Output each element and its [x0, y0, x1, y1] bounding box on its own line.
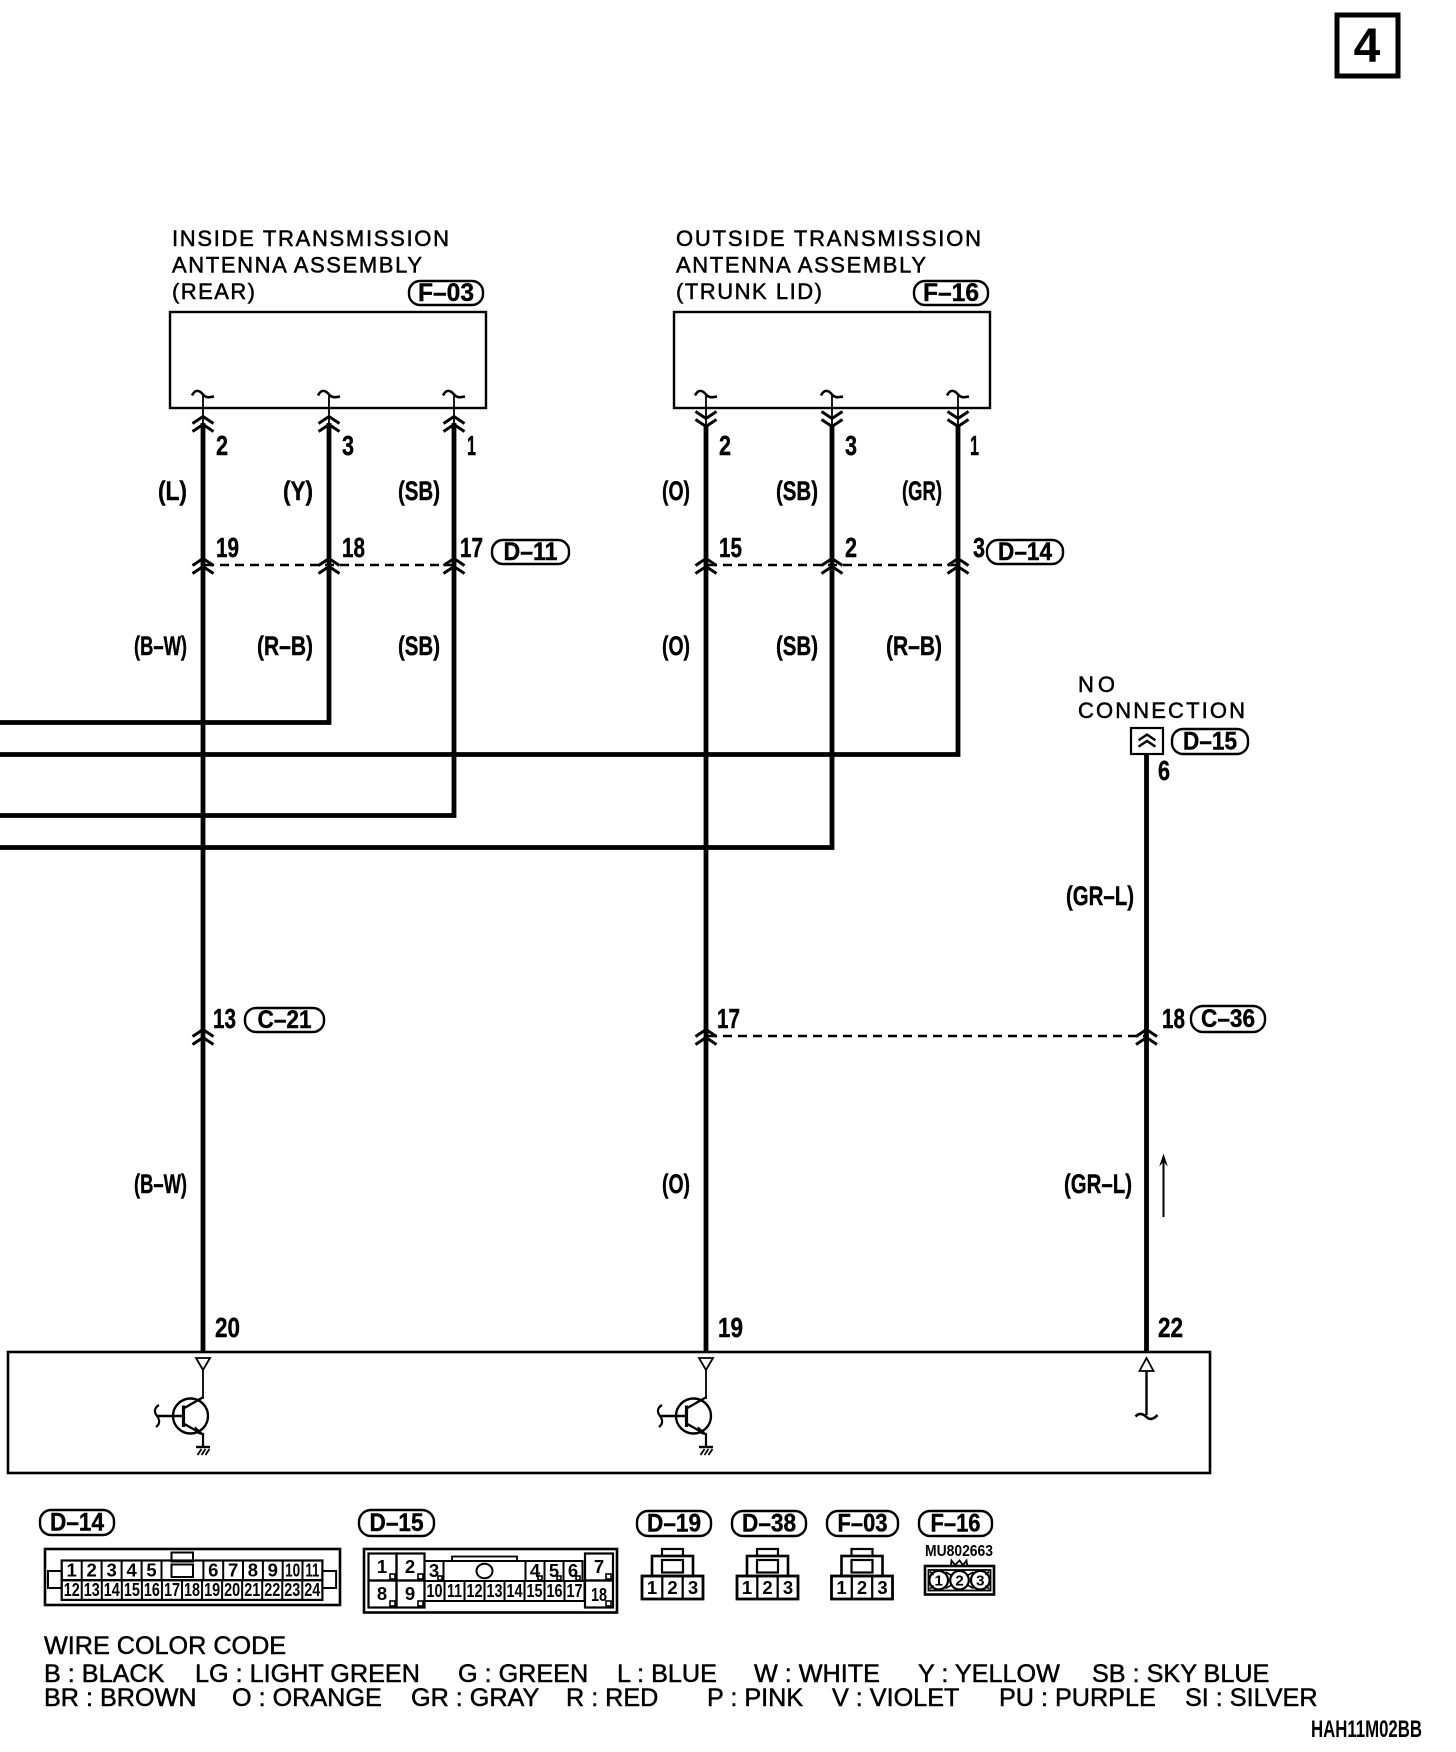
component box F-03 antenna assembly — [170, 312, 486, 408]
svg-text:D–14: D–14 — [50, 1509, 104, 1537]
svg-text:ANTENNA ASSEMBLY: ANTENNA ASSEMBLY — [172, 253, 422, 278]
svg-text:23: 23 — [284, 1579, 300, 1600]
svg-text:D–15: D–15 — [370, 1509, 424, 1537]
svg-text:(R–B): (R–B) — [257, 631, 313, 661]
wire continues wave — [1136, 1414, 1158, 1419]
svg-text:F–16: F–16 — [931, 1510, 981, 1538]
svg-text:(REAR): (REAR) — [172, 279, 255, 304]
svg-text:(Y): (Y) — [283, 476, 313, 506]
svg-text:11: 11 — [305, 1560, 319, 1581]
svg-text:13: 13 — [84, 1579, 100, 1600]
svg-text:12: 12 — [467, 1580, 483, 1601]
svg-text:D–38: D–38 — [742, 1510, 796, 1538]
svg-text:GR : GRAY: GR : GRAY — [411, 1684, 539, 1712]
svg-text:NO: NO — [1078, 672, 1115, 697]
svg-text:D–11: D–11 — [504, 538, 558, 566]
wire F-16 pin1 vertical — [0, 426, 958, 755]
connector pill F-03 — [409, 279, 483, 307]
pill F-03 bottom — [827, 1510, 898, 1538]
transistor Q2 with ground — [658, 1397, 713, 1455]
svg-text:CONNECTION: CONNECTION — [1078, 698, 1245, 723]
svg-text:(SB): (SB) — [398, 476, 440, 506]
svg-text:2: 2 — [719, 430, 731, 461]
pill D-38 — [732, 1510, 806, 1538]
svg-text:12: 12 — [64, 1579, 80, 1600]
svg-text:SI : SILVER: SI : SILVER — [1185, 1684, 1318, 1712]
pin 19 entry triangle — [699, 1358, 713, 1370]
svg-text:1: 1 — [377, 1556, 387, 1577]
svg-text:3: 3 — [976, 1573, 984, 1590]
svg-text:8: 8 — [248, 1560, 258, 1581]
svg-text:18: 18 — [591, 1584, 607, 1605]
connector D-19 face — [642, 1549, 703, 1599]
svg-text:2: 2 — [405, 1556, 415, 1577]
svg-text:D–14: D–14 — [998, 538, 1052, 566]
wire F-03 pin1 vertical — [0, 423, 454, 816]
connector F-03 pin 2 chevrons — [193, 417, 214, 432]
svg-text:(GR–L): (GR–L) — [1066, 881, 1134, 911]
svg-text:1: 1 — [467, 430, 476, 461]
connector C-36 pin 18 chevrons — [1136, 1030, 1157, 1045]
svg-text:2: 2 — [845, 532, 857, 563]
pill D-14 bottom — [40, 1509, 114, 1537]
antenna coil pin1 — [695, 391, 717, 425]
page number box 4 — [1337, 15, 1398, 76]
connector D-11 pin 18 chevrons — [319, 559, 340, 574]
svg-text:(L): (L) — [158, 476, 187, 506]
svg-text:2: 2 — [762, 1577, 772, 1598]
svg-text:18: 18 — [1162, 1003, 1185, 1034]
svg-text:14: 14 — [507, 1580, 524, 1601]
pin 22 internal lead — [1145, 1371, 1147, 1415]
svg-text:18: 18 — [342, 532, 365, 563]
svg-text:9: 9 — [405, 1583, 415, 1604]
svg-text:1: 1 — [647, 1577, 657, 1598]
svg-text:P : PINK: P : PINK — [707, 1684, 803, 1712]
legend row 1 — [44, 1660, 1269, 1688]
svg-text:6: 6 — [1158, 755, 1170, 786]
dashed connector line C-36 — [708, 1035, 1146, 1038]
svg-text:ANTENNA ASSEMBLY: ANTENNA ASSEMBLY — [676, 253, 926, 278]
svg-text:F–03: F–03 — [838, 1510, 888, 1538]
svg-text:13: 13 — [213, 1003, 236, 1034]
svg-text:9: 9 — [268, 1560, 278, 1581]
wire F-16 pin2 down — [704, 426, 709, 1352]
svg-text:INSIDE TRANSMISSION: INSIDE TRANSMISSION — [172, 226, 449, 251]
svg-text:R : RED: R : RED — [566, 1684, 658, 1712]
svg-text:(R–B): (R–B) — [886, 631, 942, 661]
svg-text:1: 1 — [742, 1577, 752, 1598]
pill C-36 — [1191, 1005, 1265, 1033]
svg-text:O : ORANGE: O : ORANGE — [232, 1684, 382, 1712]
svg-text:13: 13 — [487, 1580, 503, 1601]
component box F-16 antenna assembly — [674, 312, 990, 408]
svg-text:3: 3 — [973, 532, 985, 563]
svg-text:21: 21 — [244, 1579, 260, 1600]
connector D-15 face — [364, 1549, 617, 1613]
header no connection — [1078, 672, 1245, 723]
svg-text:(GR): (GR) — [902, 476, 942, 506]
svg-text:19: 19 — [204, 1579, 220, 1600]
pill F-16 bottom — [919, 1510, 992, 1538]
pill C-21 — [245, 1006, 324, 1034]
wire F-16 pin3 vertical — [0, 426, 832, 848]
svg-text:3: 3 — [688, 1577, 698, 1598]
connector F-03 pin 3 chevrons — [319, 417, 340, 432]
svg-text:17: 17 — [164, 1579, 180, 1600]
svg-text:22: 22 — [264, 1579, 280, 1600]
dashed connector line D-11 — [205, 564, 454, 567]
svg-text:F–16: F–16 — [923, 279, 979, 307]
legend row 2 — [44, 1684, 1318, 1712]
svg-text:PU : PURPLE: PU : PURPLE — [999, 1684, 1156, 1712]
antenna coil pin2 — [318, 391, 340, 424]
svg-text:20: 20 — [215, 1312, 240, 1343]
antenna coil pin2 — [821, 391, 843, 425]
svg-text:17: 17 — [717, 1003, 740, 1034]
svg-text:1: 1 — [970, 430, 979, 461]
svg-text:C–21: C–21 — [258, 1006, 312, 1034]
connector F-16 face MU802663 — [925, 1543, 994, 1595]
connector F-03 face — [832, 1549, 893, 1599]
connector D-14 pin 2 chevrons — [822, 559, 843, 574]
pin 22 entry triangle up — [1140, 1358, 1154, 1371]
connector D-11 pin 17 chevrons — [444, 559, 465, 574]
svg-text:(O): (O) — [662, 1169, 690, 1199]
chevron C-21 row — [193, 1030, 214, 1045]
svg-text:8: 8 — [377, 1583, 387, 1604]
svg-text:F–03: F–03 — [418, 279, 474, 307]
wire F-03 pin2 to H1 — [201, 423, 206, 1352]
svg-text:(TRUNK LID): (TRUNK LID) — [676, 279, 822, 304]
connector D-14 pin 15 chevrons — [696, 559, 717, 574]
svg-text:10: 10 — [285, 1560, 300, 1581]
svg-text:WIRE COLOR CODE: WIRE COLOR CODE — [44, 1632, 286, 1660]
svg-text:4: 4 — [1354, 20, 1381, 73]
connector pill F-16 — [914, 279, 988, 307]
svg-text:16: 16 — [547, 1580, 563, 1601]
svg-text:(B–W): (B–W) — [134, 631, 187, 661]
connector F-03 pin 1 chevrons — [444, 417, 465, 432]
svg-text:1: 1 — [935, 1573, 943, 1590]
svg-text:MU802663: MU802663 — [925, 1543, 993, 1560]
svg-text:14: 14 — [104, 1579, 121, 1600]
svg-text:3: 3 — [877, 1577, 887, 1598]
svg-text:2: 2 — [87, 1560, 97, 1581]
svg-text:18: 18 — [184, 1579, 200, 1600]
svg-text:(SB): (SB) — [776, 631, 818, 661]
svg-text:2: 2 — [216, 430, 228, 461]
pin 20 entry triangle — [196, 1358, 210, 1370]
dashed connector line D-14 — [708, 564, 958, 567]
svg-text:1: 1 — [836, 1577, 846, 1598]
no-connection square with chevron — [1131, 728, 1163, 754]
svg-text:15: 15 — [527, 1580, 543, 1601]
svg-text:7: 7 — [228, 1560, 238, 1581]
pill D-15 — [1172, 728, 1248, 756]
svg-text:10: 10 — [427, 1580, 443, 1601]
svg-text:2: 2 — [857, 1577, 867, 1598]
svg-text:11: 11 — [447, 1580, 462, 1601]
svg-text:3: 3 — [342, 430, 354, 461]
svg-text:HAH11M02BB: HAH11M02BB — [1311, 1716, 1422, 1743]
connector D-14 face — [45, 1549, 340, 1605]
svg-text:(B–W): (B–W) — [134, 1169, 187, 1199]
svg-text:5: 5 — [146, 1560, 156, 1581]
pill D-14 — [987, 538, 1063, 566]
svg-text:15: 15 — [124, 1579, 140, 1600]
svg-text:1: 1 — [67, 1560, 77, 1581]
svg-text:3: 3 — [845, 430, 857, 461]
svg-text:4: 4 — [126, 1560, 137, 1581]
wire D-15 pin6 down — [1144, 754, 1149, 1352]
connector F-16 pin 3 chevrons — [822, 412, 843, 427]
svg-text:D–19: D–19 — [647, 1510, 701, 1538]
svg-text:24: 24 — [304, 1579, 321, 1600]
line to transistor Q1 — [202, 1370, 204, 1399]
connector D-14 pin 3 chevrons — [948, 559, 969, 574]
svg-text:(O): (O) — [662, 631, 690, 661]
svg-text:V : VIOLET: V : VIOLET — [832, 1684, 959, 1712]
connector F-16 pin 1 chevrons — [948, 412, 969, 427]
svg-text:22: 22 — [1158, 1312, 1183, 1343]
connector F-16 pin 2 chevrons (male down) — [696, 412, 717, 427]
svg-text:16: 16 — [144, 1579, 160, 1600]
header F-03 — [172, 226, 449, 304]
pill D-15 bottom — [359, 1509, 434, 1537]
pill D-19 — [637, 1510, 711, 1538]
svg-text:20: 20 — [224, 1579, 240, 1600]
svg-text:17: 17 — [567, 1580, 583, 1601]
direction arrow up — [1159, 1154, 1168, 1218]
svg-text:(GR–L): (GR–L) — [1064, 1169, 1132, 1199]
connector D-11 pin 19 chevrons — [193, 559, 214, 574]
header F-16 — [676, 226, 981, 304]
antenna coil pin3 — [947, 391, 969, 425]
svg-text:7: 7 — [594, 1556, 604, 1577]
antenna coil pin3 — [443, 391, 465, 424]
svg-text:C–36: C–36 — [1201, 1005, 1255, 1033]
transistor Q1 with ground — [155, 1397, 210, 1455]
wire F-03 pin3 vertical — [0, 423, 329, 723]
svg-text:(O): (O) — [662, 476, 690, 506]
svg-text:OUTSIDE TRANSMISSION: OUTSIDE TRANSMISSION — [676, 226, 981, 251]
svg-text:19: 19 — [718, 1312, 743, 1343]
svg-text:(SB): (SB) — [776, 476, 818, 506]
pill D-11 — [492, 538, 569, 566]
svg-text:17: 17 — [460, 532, 483, 563]
svg-text:3: 3 — [106, 1560, 116, 1581]
svg-text:(SB): (SB) — [398, 631, 440, 661]
antenna coil pin1 — [192, 391, 214, 424]
connector C-36 pin 17 chevrons — [696, 1030, 717, 1045]
svg-text:D–15: D–15 — [1183, 728, 1237, 756]
svg-text:19: 19 — [216, 532, 239, 563]
svg-text:15: 15 — [719, 532, 742, 563]
svg-text:BR : BROWN: BR : BROWN — [44, 1684, 197, 1712]
svg-text:2: 2 — [955, 1573, 963, 1590]
connector D-38 face — [737, 1549, 798, 1599]
line to transistor Q2 — [705, 1370, 707, 1399]
svg-text:4: 4 — [530, 1560, 541, 1581]
svg-text:3: 3 — [783, 1577, 793, 1598]
svg-text:2: 2 — [667, 1577, 677, 1598]
svg-text:6: 6 — [208, 1560, 218, 1581]
